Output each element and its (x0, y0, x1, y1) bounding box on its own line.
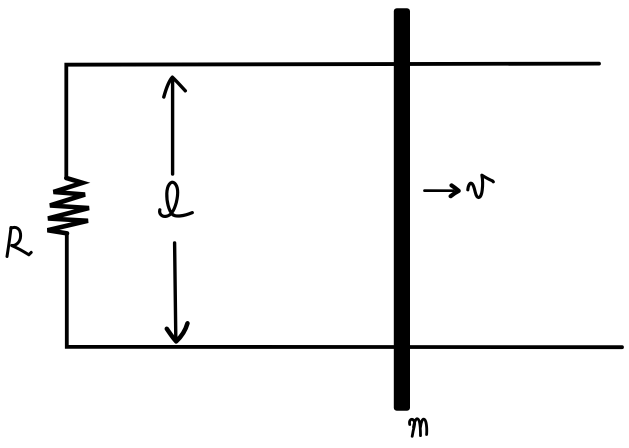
wire: left vertical bottom segment and bottom rail (resistor down to corner, then right) (67, 233, 622, 347)
conducting rod (sliding bar, mass m) (394, 8, 410, 411)
dimension arrow down (length l) (167, 243, 188, 341)
label R (handwritten) (7, 227, 31, 256)
dimension arrow up (length l) (164, 77, 186, 174)
velocity arrow (425, 185, 459, 196)
label m (handwritten) (410, 419, 427, 436)
wire: top rail and left vertical top segment (corner at top-left, down to resistor) (66, 64, 599, 178)
label v (handwritten script) (468, 175, 494, 197)
label l (script ell) (160, 182, 193, 216)
resistor R (zigzag) (48, 178, 90, 233)
